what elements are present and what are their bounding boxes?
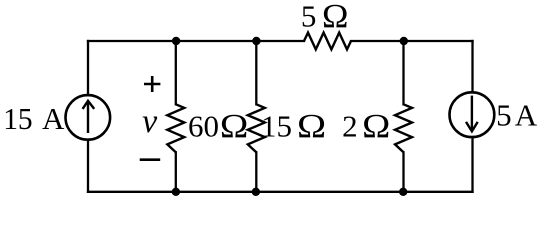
svg-text:2: 2 (342, 108, 358, 143)
svg-text:5: 5 (496, 98, 512, 133)
svg-text:Ω: Ω (297, 107, 326, 145)
svg-text:A: A (42, 101, 65, 136)
svg-text:Ω: Ω (362, 107, 390, 145)
svg-text:Ω: Ω (322, 0, 348, 35)
svg-text:15: 15 (261, 108, 292, 143)
svg-text:v: v (142, 103, 158, 140)
svg-text:15: 15 (3, 101, 32, 136)
svg-text:Ω: Ω (220, 107, 248, 145)
svg-text:A: A (515, 98, 538, 133)
svg-text:60: 60 (188, 108, 219, 143)
svg-text:5: 5 (301, 0, 317, 33)
